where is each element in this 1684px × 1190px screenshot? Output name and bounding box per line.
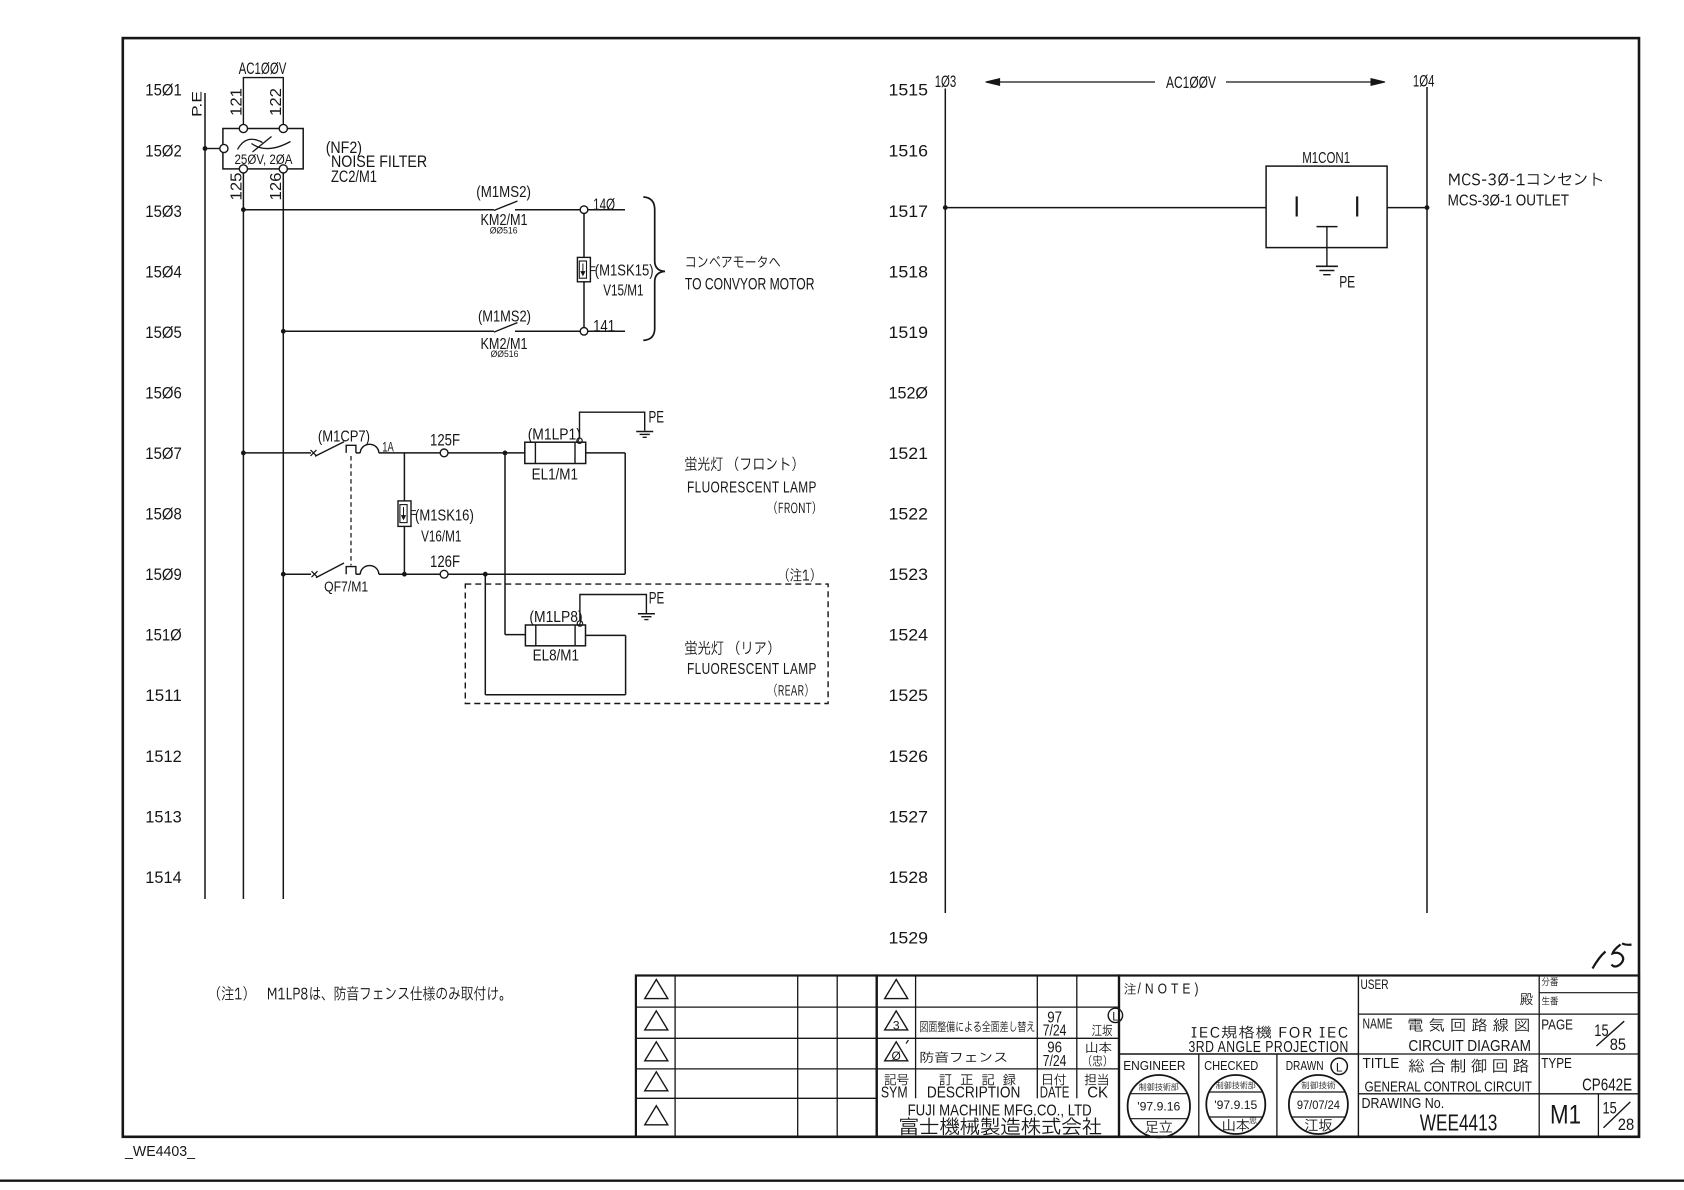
svg-text:1A: 1A: [382, 439, 394, 455]
svg-text:(M1LP1): (M1LP1): [528, 426, 581, 443]
svg-text:1521: 1521: [889, 445, 929, 463]
svg-text:1513: 1513: [145, 808, 182, 826]
svg-text:1528: 1528: [889, 869, 929, 887]
svg-text:1522: 1522: [889, 506, 929, 524]
svg-text:14Ø: 14Ø: [593, 196, 615, 214]
svg-text:15Ø7: 15Ø7: [145, 445, 182, 463]
svg-text:WEE4413: WEE4413: [1420, 1109, 1498, 1135]
svg-text:DESCRIPTION: DESCRIPTION: [927, 1085, 1021, 1102]
svg-text:ØØ516: ØØ516: [491, 349, 519, 360]
svg-text:TO CONVYOR MOTOR: TO CONVYOR MOTOR: [685, 275, 815, 293]
svg-text:1527: 1527: [889, 808, 929, 826]
svg-text:(M1MS2): (M1MS2): [478, 309, 531, 326]
svg-text:1526: 1526: [889, 748, 929, 766]
svg-text:7/24: 7/24: [1043, 1053, 1067, 1070]
svg-text:FUJI MACHINE MFG.CO., LTD: FUJI MACHINE MFG.CO., LTD: [908, 1102, 1092, 1119]
svg-text:3RD ANGLE PROJECTION: 3RD ANGLE PROJECTION: [1189, 1039, 1349, 1056]
svg-text:P.E: P.E: [190, 91, 205, 117]
svg-text:PAGE: PAGE: [1541, 1017, 1573, 1033]
svg-text:V15/M1: V15/M1: [603, 282, 643, 299]
svg-text:/NOTE): /NOTE): [1138, 981, 1203, 998]
svg-text:CP642E: CP642E: [1582, 1075, 1632, 1095]
svg-text:ØØ516: ØØ516: [490, 226, 518, 237]
svg-text:3: 3: [893, 1019, 900, 1033]
svg-text:1518: 1518: [889, 263, 929, 281]
svg-text:(M1SK16): (M1SK16): [415, 507, 474, 524]
svg-text:1519: 1519: [889, 324, 929, 342]
svg-text:PE: PE: [649, 408, 665, 426]
svg-text:7/24: 7/24: [1043, 1023, 1067, 1040]
svg-text:1514: 1514: [145, 869, 182, 887]
svg-text:141: 141: [593, 317, 615, 335]
svg-text:1511: 1511: [145, 687, 182, 705]
svg-text:28: 28: [1618, 1116, 1634, 1134]
svg-text:PE: PE: [649, 589, 665, 607]
svg-text:PE: PE: [1339, 274, 1355, 292]
svg-text:SYM: SYM: [881, 1085, 908, 1102]
svg-text:'97.9.16: '97.9.16: [1137, 1102, 1180, 1114]
svg-text:ZC2/M1: ZC2/M1: [331, 168, 377, 186]
svg-text:(M1LP8): (M1LP8): [529, 609, 582, 626]
svg-text:125: 125: [228, 172, 245, 200]
svg-text:1529: 1529: [889, 929, 929, 947]
svg-text:1525: 1525: [889, 687, 929, 705]
svg-text:AC1ØØV: AC1ØØV: [239, 60, 287, 78]
svg-text:EL1/M1: EL1/M1: [532, 466, 578, 483]
svg-text:AC1ØØV: AC1ØØV: [1166, 74, 1216, 92]
svg-text:QF7/M1: QF7/M1: [324, 578, 368, 595]
svg-text:FLUORESCENT LAMP: FLUORESCENT LAMP: [687, 479, 817, 496]
svg-text:1516: 1516: [889, 142, 929, 160]
svg-text:97/07/24: 97/07/24: [1297, 1100, 1341, 1112]
svg-text:1Ø3: 1Ø3: [935, 73, 957, 91]
svg-text:121: 121: [228, 88, 245, 116]
svg-text:FLUORESCENT LAMP: FLUORESCENT LAMP: [687, 661, 817, 678]
svg-text:CIRCUIT DIAGRAM: CIRCUIT DIAGRAM: [1408, 1038, 1531, 1055]
svg-text:(M1MS2): (M1MS2): [476, 184, 531, 201]
svg-text:126: 126: [268, 173, 285, 201]
svg-text:TITLE: TITLE: [1363, 1056, 1400, 1072]
svg-text:1512: 1512: [145, 748, 182, 766]
svg-text:USER: USER: [1361, 976, 1389, 992]
svg-text:M1: M1: [1550, 1100, 1581, 1130]
svg-text:151Ø: 151Ø: [145, 627, 182, 645]
svg-text:1524: 1524: [889, 627, 929, 645]
svg-text:Ø: Ø: [892, 1049, 901, 1063]
svg-text:15Ø6: 15Ø6: [145, 384, 182, 402]
svg-text:1517: 1517: [889, 203, 929, 221]
svg-text:MCS-3Ø-1 OUTLET: MCS-3Ø-1 OUTLET: [1448, 193, 1570, 210]
svg-text:CK: CK: [1087, 1085, 1108, 1102]
svg-text:_WE4403_: _WE4403_: [124, 1144, 196, 1160]
svg-text:(M1SK15): (M1SK15): [595, 263, 654, 280]
svg-text:EL8/M1: EL8/M1: [533, 647, 579, 664]
svg-text:DATE: DATE: [1040, 1085, 1070, 1102]
svg-text:152Ø: 152Ø: [889, 384, 929, 402]
svg-text:1Ø4: 1Ø4: [1413, 73, 1435, 91]
svg-text:ENGINEER: ENGINEER: [1123, 1058, 1185, 1073]
svg-text:15Ø9: 15Ø9: [145, 566, 182, 584]
svg-text:126F: 126F: [430, 553, 460, 571]
svg-text:15Ø5: 15Ø5: [145, 324, 182, 342]
svg-text:CHECKED: CHECKED: [1204, 1058, 1258, 1073]
svg-text:15Ø1: 15Ø1: [145, 82, 182, 100]
svg-text:15Ø2: 15Ø2: [145, 142, 182, 160]
svg-text:'97.9.15: '97.9.15: [1214, 1100, 1257, 1112]
svg-text:V16/M1: V16/M1: [421, 529, 461, 546]
svg-text:122: 122: [268, 88, 285, 116]
svg-text:125F: 125F: [430, 431, 460, 449]
svg-text:TYPE: TYPE: [1541, 1056, 1572, 1072]
svg-text:M1CON1: M1CON1: [1302, 150, 1350, 167]
svg-text:1523: 1523: [889, 566, 929, 584]
svg-text:(M1CP7): (M1CP7): [318, 428, 370, 445]
svg-text:DRAWN: DRAWN: [1286, 1058, 1324, 1073]
svg-text:15Ø3: 15Ø3: [145, 203, 182, 221]
svg-text:15Ø4: 15Ø4: [145, 263, 182, 281]
svg-text:15: 15: [1603, 1099, 1617, 1117]
svg-text:15Ø8: 15Ø8: [145, 506, 182, 524]
svg-text:85: 85: [1610, 1036, 1626, 1054]
svg-text:NAME: NAME: [1363, 1016, 1393, 1032]
svg-text:L: L: [1336, 1060, 1343, 1074]
svg-text:25ØV, 2ØA: 25ØV, 2ØA: [235, 152, 293, 168]
svg-text:1515: 1515: [889, 82, 929, 100]
svg-text:GENERAL CONTROL CIRCUIT: GENERAL CONTROL CIRCUIT: [1365, 1079, 1533, 1096]
